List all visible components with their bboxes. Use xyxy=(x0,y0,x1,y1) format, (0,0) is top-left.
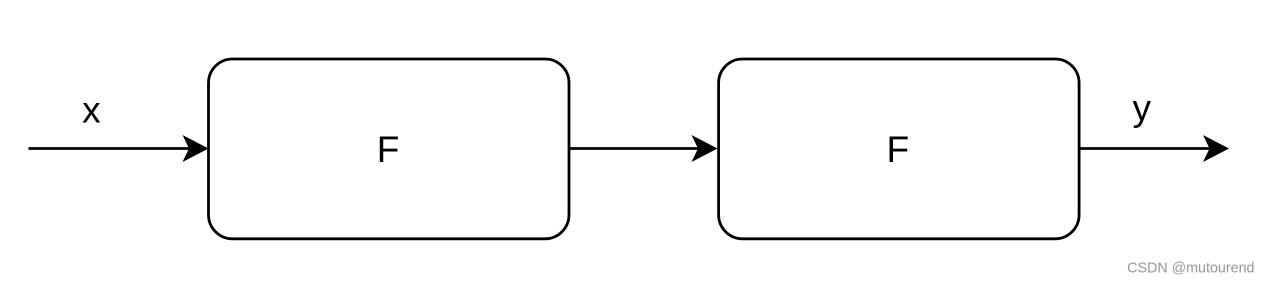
svg-text:x: x xyxy=(82,90,101,131)
svg-text:y: y xyxy=(1133,88,1152,129)
block F (left) xyxy=(209,59,570,239)
svg-text:CSDN @mutourend: CSDN @mutourend xyxy=(1127,261,1254,277)
block F (right) xyxy=(719,59,1080,239)
svg-text:F: F xyxy=(377,129,400,170)
wire: middle arrow xyxy=(569,147,699,150)
wire: output arrow y xyxy=(1079,147,1210,150)
wire: input arrow x xyxy=(29,147,191,150)
svg-text:F: F xyxy=(886,129,909,170)
